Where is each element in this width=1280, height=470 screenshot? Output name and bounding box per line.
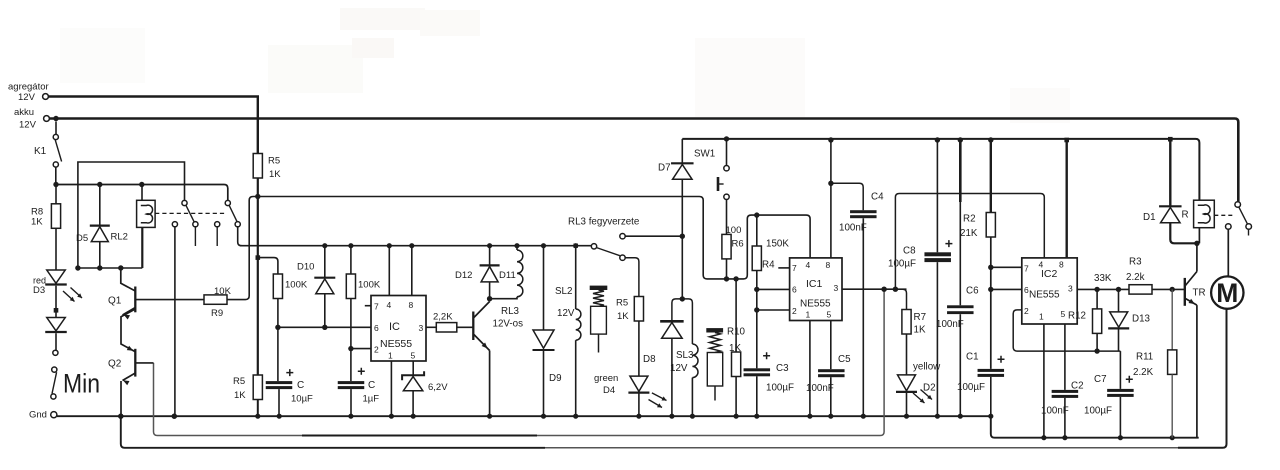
inductor SL3 (670, 299, 698, 416)
capacitor C5 100nF (806, 354, 851, 416)
svg-text:12V: 12V (557, 308, 575, 319)
junction N1-R6 (724, 276, 729, 281)
svg-text:NE555: NE555 (800, 299, 831, 310)
pin 3 IC (419, 323, 437, 333)
pin 8 IC1 (826, 137, 834, 270)
svg-text:1K: 1K (234, 390, 246, 401)
switch K1 (34, 122, 62, 185)
svg-text:C7: C7 (1094, 374, 1107, 385)
svg-text:1K: 1K (269, 169, 281, 180)
junction SL2 rail (574, 244, 578, 248)
capacitor C1 100uF (957, 352, 1005, 417)
svg-text:TR: TR (1193, 288, 1206, 299)
svg-text:C4: C4 (871, 192, 884, 203)
wire TR collector (1194, 241, 1199, 272)
junction pin2 IC1 (754, 307, 759, 312)
resistor 100K#2 (346, 246, 381, 299)
svg-text:R: R (1182, 210, 1189, 221)
transistor Q2 (108, 349, 135, 416)
svg-text:Gnd: Gnd (29, 410, 47, 421)
svg-text:4: 4 (1039, 260, 1044, 270)
wire IC1 pin3 to IC2 pin4 (895, 194, 1044, 290)
svg-text:IC2: IC2 (1041, 268, 1058, 280)
wire RL2 feedback y162 (78, 162, 185, 268)
wire R5b to gnd (257, 400, 259, 417)
svg-text:1µF: 1µF (363, 394, 380, 405)
junction sw-a gnd (172, 414, 177, 419)
svg-text:Q2: Q2 (108, 359, 122, 370)
ground bus (57, 416, 1199, 438)
junction rail p4 (387, 243, 392, 248)
svg-text:1K: 1K (617, 311, 629, 322)
svg-text:R5: R5 (233, 376, 245, 387)
wire R11 to gnd (1171, 374, 1173, 437)
junction A1 (53, 182, 58, 187)
svg-text:10K: 10K (214, 286, 232, 297)
wire pin2 line IC1 (757, 309, 790, 311)
svg-text:100µF: 100µF (766, 383, 794, 394)
svg-text:R12: R12 (1068, 311, 1086, 322)
LED D2 yellow (896, 334, 941, 416)
pin 7 stub IC1 (778, 263, 797, 273)
resistor R3 2.2k (1126, 257, 1152, 295)
svg-text:1K: 1K (914, 325, 926, 336)
junction D10 bottom (322, 325, 327, 330)
junction Q1 collector (118, 265, 123, 270)
resistor R5c 1K (616, 297, 644, 323)
node Gnd terminal (29, 410, 57, 421)
pin 5 IC (411, 351, 416, 376)
pin 1 IC2 (1039, 312, 1044, 438)
wire top rail y138.9 (682, 139, 1199, 200)
junction RL2 bottom-left (75, 265, 80, 270)
solenoid actuator SL3 (706, 328, 723, 400)
inductor D11 (RL3 coil) (490, 246, 523, 299)
wire Q1 emitter to Q2 (121, 309, 135, 352)
junction rail D12 (487, 243, 492, 248)
svg-text:2.2k: 2.2k (1126, 272, 1145, 283)
svg-text:NE555: NE555 (380, 338, 412, 350)
wire RL3 sw upper contact (625, 235, 682, 237)
label RL3 12V-os (493, 306, 524, 330)
resistor R6 100 (722, 200, 744, 259)
svg-text:2: 2 (374, 345, 379, 355)
junction rail D11 (514, 243, 519, 248)
junction D7/RL3sw (680, 234, 685, 239)
wire pin7 line IC2 (991, 266, 1022, 268)
relay contact switch (1226, 202, 1252, 236)
svg-text:3: 3 (1068, 284, 1073, 294)
junction C8 rail (935, 137, 940, 142)
junction rail p8 (409, 243, 414, 248)
svg-text:12V: 12V (19, 120, 37, 131)
resistor R8 (31, 185, 61, 229)
capacitor C7 100uF (1084, 351, 1134, 438)
LED D3 red (33, 270, 82, 302)
wire Q3 emitter (489, 351, 491, 417)
svg-text:100nF: 100nF (1041, 406, 1069, 417)
diode D12 (455, 246, 500, 299)
diode D8 (643, 299, 684, 416)
wire Q2 base (136, 362, 154, 364)
svg-text:100µF: 100µF (957, 382, 985, 393)
svg-text:1: 1 (806, 310, 811, 320)
wire R9 to node N1 (227, 197, 810, 300)
junction rail 100K (348, 243, 353, 248)
diode D1 (1143, 137, 1197, 243)
wire pin3 to R7 (903, 289, 907, 309)
resistor R5 (bottom) (233, 375, 262, 401)
svg-text:R3: R3 (1129, 257, 1142, 268)
svg-text:D8: D8 (643, 354, 656, 365)
svg-text:4: 4 (806, 260, 811, 270)
svg-text:2: 2 (792, 306, 797, 316)
wire Q3 collector node (487, 296, 492, 302)
junction rail SL2 (573, 243, 578, 248)
svg-text:5: 5 (1061, 309, 1066, 319)
wire supply rail y245.7 (240, 245, 591, 247)
wire to Min switch (55, 333, 57, 350)
pin 2 IC (374, 345, 379, 355)
svg-text:4: 4 (387, 300, 392, 310)
diode D7 (658, 139, 694, 236)
pin 4 IC2 (1039, 260, 1044, 270)
junction R4 top (754, 212, 759, 217)
wire 100K#2 to pin2 (350, 299, 352, 349)
junction R5/N1 wire (255, 194, 260, 199)
pin 6 IC (374, 323, 379, 333)
wire RL2 mech link (dashed) (155, 212, 225, 214)
capacitor C 10uF (266, 327, 313, 416)
svg-text:agregátor: agregátor (8, 82, 49, 93)
svg-text:6: 6 (792, 285, 797, 295)
junction below D3 (54, 286, 59, 318)
junction N1-R10 (733, 276, 738, 281)
wire overlay dark segment 2 (1178, 309, 1227, 448)
wire IC1 pin3 to Q2 base (154, 289, 885, 435)
svg-text:R6: R6 (732, 239, 744, 250)
wire RL3 sw lower contact (625, 258, 639, 297)
svg-text:D5: D5 (76, 233, 88, 244)
resistor R10 1K (727, 279, 746, 377)
svg-text:1K: 1K (729, 343, 741, 354)
wire pin6 line IC2 (991, 288, 1022, 290)
junction R2/pin7 (988, 265, 993, 270)
svg-text:100nF: 100nF (839, 223, 867, 234)
resistor R12 33K (1068, 273, 1112, 333)
junction D5 bottom (97, 265, 102, 270)
capacitor C3 100uF (744, 310, 794, 416)
diode D5 (76, 185, 128, 269)
svg-text:100µF: 100µF (888, 259, 916, 270)
svg-text:100nF: 100nF (936, 319, 964, 330)
junction R2 rail (988, 137, 993, 142)
svg-text:RL3: RL3 (501, 306, 520, 317)
solenoid actuator SL2 (590, 286, 608, 353)
resistor R11 2.2K (1133, 289, 1177, 378)
capacitor C8 100uF (888, 140, 952, 416)
wire R4 to pin6/2 (756, 271, 758, 311)
junction rail D10 (322, 243, 327, 248)
svg-text:R10: R10 (727, 327, 746, 338)
label RL3 fegyverzete (568, 217, 640, 228)
relay coil RL2 (137, 185, 156, 269)
svg-text:100nF: 100nF (806, 383, 834, 394)
svg-text:10µF: 10µF (291, 394, 313, 405)
zener 6.2V (402, 371, 448, 416)
resistor R4 150K (752, 215, 789, 270)
svg-text:D1: D1 (1143, 212, 1156, 223)
wire pin6 line IC1 (757, 288, 790, 290)
resistor R7 1K (902, 310, 926, 336)
svg-text:12V: 12V (670, 363, 688, 374)
wire 2.2K to Q3 (457, 326, 474, 328)
op-amp timer IC2 (NE555) (1022, 258, 1077, 324)
wire TR emitter (1196, 305, 1198, 438)
svg-text:Q1: Q1 (108, 296, 122, 307)
wire R5 to 100K#1 (258, 258, 278, 274)
junction A2 (97, 182, 102, 187)
capacitor C4 100nF (831, 183, 884, 416)
svg-text:M: M (1216, 278, 1238, 308)
svg-text:IC1: IC1 (806, 278, 823, 290)
junction pin3/IC2 link (893, 287, 898, 292)
junction rail D9 (541, 243, 546, 248)
transistor TR (1185, 272, 1206, 306)
junction SW1 rail (724, 136, 729, 141)
svg-text:100K: 100K (285, 280, 308, 291)
junction Q2 emitter gnd (118, 414, 123, 419)
pin 3 IC2 (1068, 284, 1129, 294)
svg-text:C5: C5 (838, 354, 851, 365)
svg-text:7: 7 (792, 263, 797, 273)
resistor 2.2K (433, 312, 457, 333)
svg-text:R4: R4 (762, 260, 775, 271)
inductor SL2 (555, 246, 581, 417)
pin 8 IC (409, 246, 414, 310)
svg-text:D11: D11 (499, 270, 516, 281)
svg-text:C6: C6 (966, 286, 979, 297)
svg-text:12V: 12V (18, 92, 36, 103)
svg-text:C1: C1 (966, 352, 979, 363)
junction pin2 node (348, 346, 353, 351)
wire pin6 line (278, 326, 371, 328)
relay switch RL2-a (172, 200, 198, 416)
svg-text:2.2K: 2.2K (1133, 367, 1154, 378)
capacitor C6 100nF (936, 140, 979, 416)
wire overlay dark segment (302, 435, 537, 437)
svg-text:Min: Min (63, 369, 100, 399)
relay switch RL3 (fegyverzete) (591, 234, 625, 261)
svg-text:K1: K1 (34, 146, 47, 157)
svg-text:D3: D3 (33, 285, 45, 296)
switch Min (51, 350, 100, 399)
relay switch RL2-b (215, 200, 242, 246)
wire agregátor rail to R5 (49, 97, 258, 154)
junction pin6 node (275, 325, 280, 330)
svg-text:R9: R9 (211, 308, 223, 319)
pin 6 IC2 (1024, 285, 1029, 295)
svg-text:R5: R5 (616, 298, 628, 309)
svg-text:8: 8 (826, 260, 831, 270)
capacitor C2 100nF (1041, 381, 1084, 438)
svg-text:RL2: RL2 (111, 232, 128, 243)
svg-text:R5: R5 (268, 156, 280, 167)
svg-text:D4: D4 (603, 385, 615, 396)
capacitor C 1uF (338, 349, 380, 417)
svg-text:C: C (297, 380, 304, 391)
wire 100K#1 to pin6 node (277, 299, 279, 328)
svg-text:5: 5 (827, 310, 832, 320)
motor M (1211, 276, 1243, 308)
junction R4/pin6 (754, 287, 759, 292)
pin 1 IC (388, 351, 393, 417)
svg-text:2,2K: 2,2K (433, 312, 453, 323)
svg-text:C: C (368, 380, 375, 391)
junction pin3-R12 (1094, 287, 1099, 292)
svg-text:6: 6 (374, 323, 379, 333)
pin 1 IC1 (806, 310, 811, 417)
pin 6 IC1 (792, 285, 797, 295)
svg-text:5: 5 (411, 351, 416, 361)
relay coil R (1194, 200, 1215, 243)
junction pin3-D13 (1116, 287, 1121, 292)
svg-text:8: 8 (1059, 260, 1064, 270)
resistor R2 21K (960, 140, 995, 239)
wire R5 down (257, 178, 259, 375)
svg-text:D10: D10 (297, 262, 314, 273)
wire R2 to pins 7/6 (990, 237, 992, 369)
svg-text:red: red (33, 276, 46, 286)
svg-text:D7: D7 (658, 163, 671, 174)
transistor Q3 (RL3 driver) (473, 302, 489, 351)
wire R6 to N1 (726, 259, 728, 279)
wire R10 to gnd (735, 377, 737, 417)
svg-text:2: 2 (1024, 306, 1029, 316)
diode D9 (533, 246, 562, 417)
svg-text:33K: 33K (1094, 273, 1112, 284)
svg-text:6: 6 (1024, 285, 1029, 295)
LED D4 green (594, 373, 667, 416)
pin 7 stub IC (365, 302, 379, 312)
diode D3b (45, 318, 67, 333)
pin 8 IC2 (1059, 138, 1069, 270)
svg-text:akku: akku (14, 107, 34, 118)
svg-text:3: 3 (419, 323, 424, 333)
wire D7 down to split (680, 236, 685, 301)
pin 2 IC2 (1013, 306, 1120, 351)
svg-text:D9: D9 (549, 373, 562, 384)
svg-text:SL3: SL3 (676, 350, 694, 361)
svg-text:IC: IC (389, 321, 400, 333)
svg-text:7: 7 (1024, 264, 1029, 274)
wire node-A rail y184.5 (56, 185, 228, 201)
pin 5 IC1 (827, 310, 832, 370)
wire motor return (bottom) (121, 416, 1178, 448)
svg-text:C3: C3 (776, 363, 789, 374)
resistor R5 (top) (253, 154, 281, 181)
svg-text:R2: R2 (963, 214, 976, 225)
resistor R9 10K (204, 286, 232, 319)
svg-text:D13: D13 (1132, 314, 1151, 325)
junction pin6 IC2 (988, 287, 993, 292)
junction A3 (139, 182, 144, 187)
svg-text:green: green (594, 373, 618, 384)
diode D13 (1108, 289, 1150, 351)
resistor 100K#1 (273, 274, 308, 299)
wire R8 to D3 (55, 228, 57, 270)
pin 2 IC1 (792, 306, 797, 316)
wire relay mech link (dashed) (1214, 214, 1233, 216)
transistor Q1 (108, 268, 135, 320)
svg-text:SW1: SW1 (694, 149, 715, 160)
svg-text:100K: 100K (358, 280, 381, 291)
wire R12 bottom (1094, 333, 1099, 353)
wire R3 to TR base (1152, 288, 1184, 290)
pin 4 IC (387, 246, 392, 310)
svg-text:21K: 21K (960, 228, 978, 239)
svg-text:7: 7 (374, 302, 379, 312)
svg-text:100µF: 100µF (1084, 406, 1112, 417)
svg-text:NE555: NE555 (1029, 290, 1060, 301)
ground bus junction dots (118, 414, 1175, 441)
junction akku/K1 (53, 116, 58, 121)
wire contact to motor (1227, 229, 1229, 276)
svg-text:C2: C2 (1071, 381, 1084, 392)
op-amp timer IC1 (NE555) (790, 258, 842, 321)
node agregátor 12V terminal (8, 82, 49, 104)
wire akku rail (to relay contact) (50, 119, 1239, 202)
svg-text:SL2: SL2 (555, 286, 572, 297)
wire pin2 line (351, 348, 371, 350)
junction C6 rail (958, 137, 963, 142)
pin 5 IC2 (1061, 309, 1066, 390)
svg-text:12V-os: 12V-os (493, 319, 524, 330)
svg-text:6,2V: 6,2V (428, 382, 448, 393)
wire RL2 bottom node y268 (78, 267, 142, 269)
svg-text:D2: D2 (923, 383, 936, 394)
junction R5/100K branch (256, 255, 261, 260)
svg-text:C8: C8 (903, 246, 916, 257)
svg-text:150K: 150K (766, 239, 789, 250)
svg-text:D12: D12 (455, 270, 472, 281)
wire R5c to D4 (638, 321, 640, 376)
svg-text:100: 100 (726, 225, 742, 236)
svg-text:R7: R7 (914, 312, 927, 323)
svg-text:8: 8 (409, 300, 414, 310)
junction TR base/R11 (1170, 287, 1175, 292)
node akku 12V terminal (14, 107, 49, 131)
svg-text:1: 1 (1039, 312, 1044, 322)
switch SW1 (pushbutton) (694, 139, 729, 200)
svg-text:1K: 1K (31, 217, 43, 228)
op-amp timer IC (NE555) (371, 296, 426, 362)
svg-text:1: 1 (388, 351, 393, 361)
diode D10 (297, 246, 335, 328)
pin 4 IC1 (806, 260, 811, 270)
pin 7 IC2 (1024, 264, 1029, 274)
pin 3 IC1 (834, 283, 907, 293)
svg-text:RL3 fegyverzete: RL3 fegyverzete (568, 217, 640, 228)
svg-text:R11: R11 (1136, 352, 1153, 363)
svg-text:3: 3 (834, 283, 839, 293)
wire Q1 base (136, 299, 204, 301)
junction pin3/Q2wire (881, 287, 886, 292)
